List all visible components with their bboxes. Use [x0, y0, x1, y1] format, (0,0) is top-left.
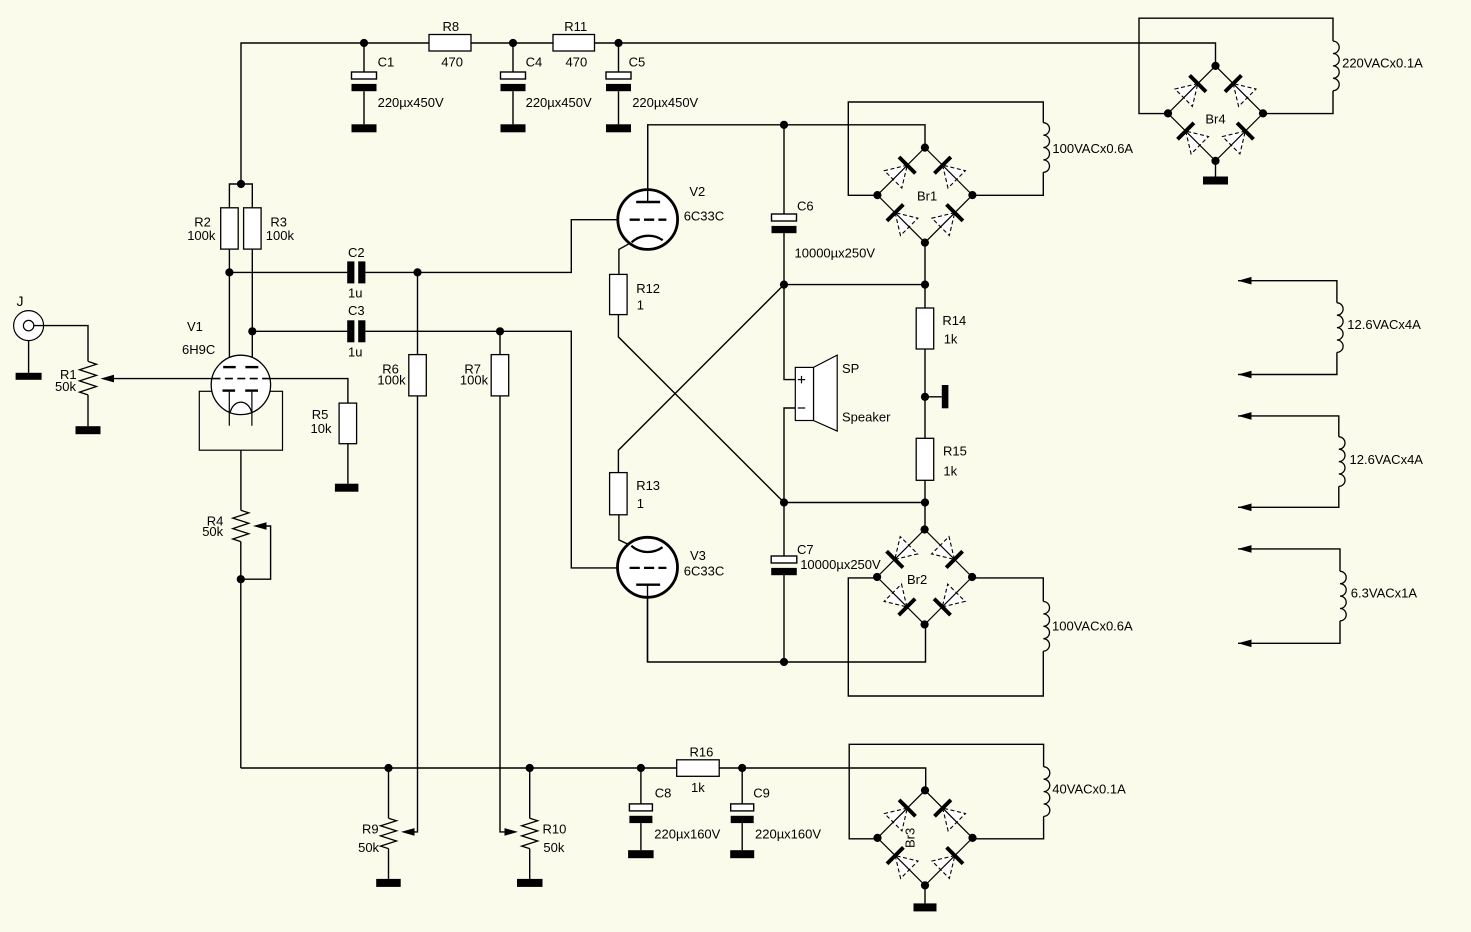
svg-text:220µx160V: 220µx160V [654, 826, 720, 841]
node Br1 right terminal [968, 191, 976, 199]
tube V3 anode plate [636, 584, 660, 586]
node junction R2/R3 top [237, 180, 245, 188]
node Br4 top terminal [1211, 62, 1219, 70]
arrow terminal W1 bottom [1238, 371, 1252, 379]
diode Br3c (bottom to left) [887, 847, 918, 878]
wire C9 lower lead to ground [741, 823, 743, 850]
svg-text:R12: R12 [636, 281, 660, 296]
diode Br1c (bottom to left) [887, 205, 918, 236]
tube V1 envelope box [199, 391, 282, 450]
capacitor C6 [772, 214, 797, 233]
svg-text:C7: C7 [797, 542, 814, 557]
capacitor C9 [731, 804, 754, 823]
node Br2 top terminal [921, 525, 929, 533]
svg-text:R14: R14 [942, 313, 966, 328]
svg-text:1: 1 [637, 297, 644, 312]
svg-text:100VACx0.6A: 100VACx0.6A [1052, 619, 1133, 634]
ground under C9 [730, 850, 754, 858]
wire R1 bottom to ground [87, 395, 89, 426]
capacitor C2 [347, 261, 365, 283]
wire bottom rail R16 to Br3 top [719, 768, 926, 791]
svg-text:Br1: Br1 [917, 188, 937, 203]
svg-text:50k: 50k [202, 524, 223, 539]
wire R1 wiper to V1 grid [113, 379, 348, 404]
diode Br3a (left to top) [885, 800, 916, 831]
arrow terminal W2 bottom [1238, 504, 1252, 512]
inductor 100VACx0.6A winding (Br1) [1043, 123, 1049, 173]
wire R12 to speaker-minus junction (diagonal) [618, 315, 784, 503]
resistor R12 [610, 274, 628, 314]
diode Br4b (right to top) [1225, 75, 1256, 106]
svg-text:10k: 10k [311, 421, 332, 436]
wire speaker minus lead [784, 408, 795, 503]
wire C4 upper lead [512, 43, 514, 72]
svg-text:220µx450V: 220µx450V [526, 95, 592, 110]
svg-text:R8: R8 [443, 19, 460, 34]
tube V2 grid (dashed) [630, 219, 667, 221]
wire C6 junction to R14 junction [784, 284, 925, 286]
wire top B+ rail between R8 and R11 [471, 42, 553, 44]
arrow terminal W3 top [1238, 545, 1252, 553]
node tap junction between R14 and R15 [921, 393, 929, 401]
tube V2 anode plate [636, 201, 660, 203]
node Br1 bottom terminal [921, 239, 929, 247]
svg-text:V2: V2 [689, 184, 705, 199]
node Br1 top terminal [921, 144, 929, 152]
svg-text:C3: C3 [348, 303, 365, 318]
svg-text:6C33C: 6C33C [684, 208, 724, 223]
node Br2 bottom terminal [921, 620, 929, 628]
wire tap stub to bar [925, 396, 942, 398]
ground under R9 [376, 879, 401, 887]
svg-text:V3: V3 [690, 548, 706, 563]
wire C4 lower lead to ground [512, 91, 514, 124]
node Br3 top terminal [921, 786, 929, 794]
wire C9 upper lead [741, 768, 743, 804]
svg-text:Br3: Br3 [903, 828, 918, 848]
speaker SP symbol [795, 355, 837, 431]
svg-text:1k: 1k [691, 780, 705, 795]
tube V1 right anode plate [245, 366, 258, 368]
ground under C8 [628, 850, 654, 858]
svg-text:40VACx0.1A: 40VACx0.1A [1052, 782, 1126, 797]
wire R13 to V3 cathode lead [619, 515, 631, 546]
resistor R14 [916, 308, 934, 349]
inductor 6.3VACx1A winding [1340, 571, 1346, 621]
wire C6 lower lead [783, 233, 785, 285]
svg-text:50k: 50k [55, 379, 76, 394]
wire R2 top lead [229, 184, 252, 208]
svg-text:C6: C6 [797, 199, 814, 214]
diode Br4a (left to top) [1175, 75, 1206, 106]
svg-text:100k: 100k [377, 373, 406, 388]
inductor 100VACx0.6A winding (Br2) [1043, 602, 1049, 652]
svg-text:10000µx250V: 10000µx250V [795, 245, 876, 260]
tube V1 right cathode [245, 389, 258, 391]
wire Br1 plus rail to V2 anode [648, 125, 925, 202]
wire winding 12.6VACx4A-1 bottom lead [1238, 352, 1337, 374]
node junction C5/top rail [614, 39, 622, 47]
diode Br1b (right to top) [934, 157, 965, 188]
svg-text:10000µx250V: 10000µx250V [800, 557, 881, 572]
wire C8 lower lead to ground [640, 823, 642, 850]
wire R10 top lead [529, 768, 531, 818]
svg-text:V1: V1 [187, 319, 203, 334]
wire bottom negative rail left of R16 [241, 767, 677, 769]
resistor R13 [610, 473, 628, 515]
svg-text:1u: 1u [348, 286, 362, 301]
node junction C7+/speaker- [780, 498, 788, 506]
ground under R1 [76, 426, 101, 434]
svg-text:6H9C: 6H9C [182, 342, 215, 357]
wire Br4 winding loop right [1263, 91, 1333, 114]
node junction R10/bottom rail [526, 764, 534, 772]
wire C7 lower lead [783, 573, 785, 662]
resistor R2 [221, 208, 239, 249]
svg-text:50k: 50k [358, 840, 379, 855]
wire V1 anode to C3 [252, 330, 347, 332]
node junction C6- / speaker+ / R14 [780, 281, 788, 289]
inductor 12.6VACx4A winding 1 [1337, 303, 1343, 353]
wire Br4 minus to ground [1215, 160, 1217, 177]
node Br3 right terminal [968, 834, 976, 842]
potentiometer R10 element [522, 818, 538, 848]
node Br3 bottom terminal [921, 881, 929, 889]
tube V3 bulb [618, 537, 678, 597]
node junction R15/Br2 [921, 498, 929, 506]
capacitor C7 [771, 556, 797, 575]
wire speaker minus junction to R15 junction [784, 502, 925, 504]
wire junction to R14 top [924, 285, 926, 308]
tube V3 anode lead [647, 585, 649, 662]
capacitor C5 [606, 72, 631, 91]
ground under jack J [16, 373, 42, 380]
node junction C2 line / R6 [413, 268, 421, 276]
svg-text:50k: 50k [543, 840, 564, 855]
wire R15 bottom lead [924, 480, 926, 502]
node junction V1 right anode / C3 [248, 327, 256, 335]
svg-text:470: 470 [566, 55, 588, 70]
tube V2 anode lead [647, 125, 649, 202]
wire winding 6.3VACx1A bottom lead [1238, 621, 1340, 643]
potentiometer R9 element [381, 818, 397, 848]
wire R2 bottom lead to V1 left anode [228, 249, 230, 367]
capacitor C4 [501, 72, 526, 91]
svg-text:J: J [17, 293, 24, 309]
arrow terminal W2 top [1238, 412, 1252, 420]
diode Br3b (right to top) [935, 800, 966, 831]
svg-text:1u: 1u [348, 344, 362, 359]
wire V1 anode to C2 [229, 271, 347, 273]
potentiometer R1 element [80, 361, 97, 395]
diode Br2d (right to bottom) [934, 584, 965, 615]
wire winding 12.6VACx4A-2 top lead [1238, 416, 1339, 437]
wire Br1 minus lead [924, 242, 926, 284]
wire V3 anode to Br2 minus rail [648, 585, 926, 662]
wire Br3 winding loop left/top [849, 744, 1043, 839]
svg-text:12.6VACx4A: 12.6VACx4A [1350, 452, 1424, 467]
wire C6 junction down to speaker plus [784, 285, 795, 380]
wire V1 envelope to R4 [240, 450, 242, 510]
diode Br4c (bottom to left) [1178, 123, 1209, 154]
wiper arrow into R9 [401, 828, 415, 836]
resistor R16 [677, 760, 720, 777]
svg-text:C8: C8 [655, 785, 672, 800]
svg-text:R9: R9 [362, 822, 379, 837]
svg-text:R15: R15 [943, 443, 967, 458]
wire Br3 winding loop right [972, 816, 1044, 838]
node Br3 left terminal [873, 834, 881, 842]
node Br4 bottom terminal [1211, 157, 1219, 165]
tube V1 grid (dashed) [213, 378, 270, 380]
node junction C9/bottom rail [738, 764, 746, 772]
svg-text:R13: R13 [636, 478, 660, 493]
wiper arrow into R1 [101, 375, 115, 383]
wire C5 upper lead [618, 43, 620, 72]
wire C5 lower lead to ground [618, 91, 620, 124]
node Br1 left terminal [873, 191, 881, 199]
svg-text:C5: C5 [629, 54, 646, 69]
node Br4 right terminal [1259, 109, 1267, 117]
svg-text:1k: 1k [943, 464, 957, 479]
diode Br1a (left to top) [884, 157, 915, 188]
wire Br2 winding loop right [972, 578, 1044, 602]
wire R14 bottom to R15 top [924, 349, 926, 438]
wire Br3 minus to ground [924, 885, 926, 903]
wiper arrow into R4 [253, 522, 267, 530]
wire R7 bottom lead to R10 wiper [500, 396, 505, 832]
node Br4 left terminal [1164, 109, 1172, 117]
tube V2 cathode arc [632, 236, 663, 243]
wire Br1 winding loop left/top [848, 102, 1043, 195]
wire C7 upper lead [783, 503, 785, 557]
wire R10 bottom lead to ground [529, 849, 531, 879]
ground under C1 [352, 124, 377, 132]
wire jack J to R1 top [34, 326, 88, 362]
svg-text:C1: C1 [378, 54, 395, 69]
wire junction3 to Br2 top [924, 503, 926, 530]
ground under C4 [501, 124, 526, 132]
svg-text:1k: 1k [944, 332, 958, 347]
svg-text:100VACx0.6A: 100VACx0.6A [1052, 141, 1133, 156]
svg-text:Br2: Br2 [907, 572, 927, 587]
wire winding 12.6VACx4A-2 bottom lead [1238, 486, 1339, 507]
node junction C1/top rail [360, 39, 368, 47]
resistor R3 [244, 208, 262, 249]
svg-text:R16: R16 [690, 745, 714, 760]
inductor 220VACx0.1A winding (Br4) [1333, 41, 1339, 91]
node junction C7- / V3 anode rail [780, 658, 788, 666]
ground under Br3 [914, 903, 937, 911]
wire R9 bottom lead to ground [388, 849, 390, 879]
wire top B+ rail segment left of R8 [241, 43, 429, 184]
wire C6 junction to R13 (diagonal) [618, 285, 784, 473]
node junction C6 / V2 rail [780, 121, 788, 129]
ground under R10 [517, 879, 543, 887]
wire R4 bottom to bottom rail [240, 542, 242, 768]
svg-text:220VACx0.1A: 220VACx0.1A [1342, 56, 1423, 71]
wire Br1 winding loop right [972, 172, 1043, 195]
bridge Br3 diamond edges [878, 790, 973, 885]
wire Br2 winding loop left/bottom [848, 578, 1043, 696]
wiper arrow into R10 [505, 828, 519, 836]
resistor R11 [553, 35, 595, 52]
tube V1 right cathode lead [251, 392, 253, 426]
connector J (input jack) [14, 311, 44, 341]
wire R5 bottom lead to ground [347, 444, 349, 484]
resistor R15 [916, 438, 934, 480]
svg-text:12.6VACx4A: 12.6VACx4A [1347, 317, 1421, 332]
tube V1 left cathode lead [228, 392, 230, 426]
capacitor C1 [352, 72, 377, 91]
resistor R6 [409, 355, 427, 396]
diode Br2a (top to left) [887, 537, 918, 568]
svg-text:C9: C9 [753, 785, 770, 800]
wire Br4 winding loop left/top [1139, 18, 1333, 113]
tube V3 cathode arc [631, 546, 662, 552]
node Br2 left terminal [873, 573, 881, 581]
tube V1 heater arc [230, 402, 252, 413]
node junction Br1-/R14 [921, 281, 929, 289]
tap bar (test point) at R14/R15 junction [942, 385, 949, 408]
svg-text:Speaker: Speaker [842, 410, 891, 425]
diode Br2b (top to right) [932, 537, 963, 568]
svg-text:100k: 100k [460, 373, 489, 388]
tube V1 left anode plate [223, 366, 236, 368]
wire C1 upper lead [363, 43, 365, 72]
wire jack J sleeve to ground [28, 341, 30, 373]
bridge Br2 diamond edges [877, 530, 972, 625]
capacitor C8 [629, 804, 652, 823]
node junction R4 wiper/bottom [237, 575, 245, 583]
inductor 40VACx0.1A winding (Br3) [1044, 767, 1050, 817]
arrow terminal W1 top [1238, 277, 1252, 285]
tube V2 bulb [618, 190, 678, 250]
tube V1 bulb [211, 355, 270, 414]
svg-text:100k: 100k [187, 228, 216, 243]
ground under C5 [606, 124, 631, 132]
wire R4 wiper loop [241, 526, 271, 579]
svg-text:220µx450V: 220µx450V [632, 95, 698, 110]
node junction C3 line / R7 [496, 327, 504, 335]
wire R7 top lead [499, 331, 501, 354]
bridge Br1 diamond edges [877, 148, 972, 243]
diode Br2c (left to bottom) [884, 584, 915, 615]
svg-text:SP: SP [842, 361, 859, 376]
svg-text:C2: C2 [348, 245, 365, 260]
svg-text:220µx450V: 220µx450V [378, 95, 444, 110]
node junction R9/bottom rail [384, 764, 392, 772]
wire winding 12.6VACx4A-1 top lead [1238, 281, 1337, 303]
wire V2 cathode lead to R12 [619, 242, 632, 274]
arrow terminal W3 bottom [1238, 640, 1252, 648]
capacitor C3 [347, 320, 365, 342]
wire R3 bottom lead to V1 right anode [251, 249, 253, 367]
svg-text:C4: C4 [526, 54, 543, 69]
potentiometer R4 element [233, 510, 249, 541]
wire top B+ rail from R11 to Br4 top [595, 43, 1216, 67]
svg-text:1: 1 [637, 496, 644, 511]
diode Br4d (bottom to right) [1223, 123, 1254, 154]
svg-text:R10: R10 [543, 822, 567, 837]
svg-text:220µx160V: 220µx160V [755, 826, 821, 841]
wire C8 upper lead [640, 768, 642, 804]
wire C3 to V3 grid [365, 331, 617, 568]
wire R6 bottom lead to R9 wiper [413, 396, 418, 832]
wire winding 6.3VACx1A top lead [1238, 549, 1340, 571]
resistor R7 [491, 355, 509, 396]
wire R6 top lead [417, 272, 419, 354]
wire C1 lower lead to ground [363, 91, 365, 124]
svg-text:6C33C: 6C33C [684, 563, 724, 578]
node junction C8/bottom rail [637, 764, 645, 772]
inductor 12.6VACx4A winding 2 [1339, 437, 1345, 487]
diode Br1d (bottom to right) [932, 205, 963, 236]
svg-text:470: 470 [441, 55, 463, 70]
ground under Br4 [1203, 177, 1228, 185]
resistor R8 [429, 35, 471, 52]
tube V3 grid (dashed) [630, 567, 667, 569]
ground under R5 [335, 484, 359, 492]
diode Br3d (bottom to right) [932, 847, 963, 878]
svg-text:6.3VACx1A: 6.3VACx1A [1351, 586, 1418, 601]
bridge Br4 diamond edges [1168, 66, 1263, 161]
svg-text:R11: R11 [564, 19, 587, 34]
node junction C4/top rail [509, 39, 517, 47]
tube V1 left cathode [223, 389, 236, 391]
wire C2 to V2 grid [365, 220, 617, 273]
wire R9 top lead [388, 768, 390, 818]
svg-text:100k: 100k [266, 228, 295, 243]
resistor R5 [339, 403, 357, 444]
node Br2 right terminal [968, 573, 976, 581]
svg-text:Br4: Br4 [1205, 111, 1225, 126]
wire C6 upper lead [783, 125, 785, 214]
node junction V1 left anode / C2 [225, 268, 233, 276]
